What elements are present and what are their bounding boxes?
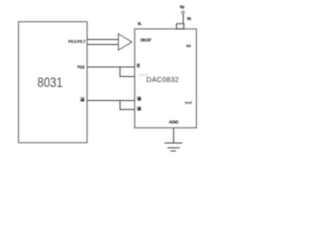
svg-text:Vcc: Vcc: [187, 16, 193, 21]
svg-text:Iout: Iout: [186, 44, 191, 48]
svg-text:+5v: +5v: [179, 5, 185, 10]
svg-text:P2.6: P2.6: [77, 65, 85, 70]
svg-text:P0.0-P0.7: P0.0-P0.7: [68, 39, 86, 44]
svg-text:DAC0832: DAC0832: [146, 75, 179, 84]
svg-text:VIL: VIL: [137, 21, 142, 26]
svg-text:8031: 8031: [37, 74, 62, 90]
svg-text:WR: WR: [80, 98, 85, 103]
svg-text:Vref: Vref: [185, 101, 193, 105]
svg-text:AGND: AGND: [169, 120, 179, 125]
svg-text:XFER: XFER: [138, 74, 148, 78]
svg-text:DI0-DI7: DI0-DI7: [140, 38, 152, 43]
